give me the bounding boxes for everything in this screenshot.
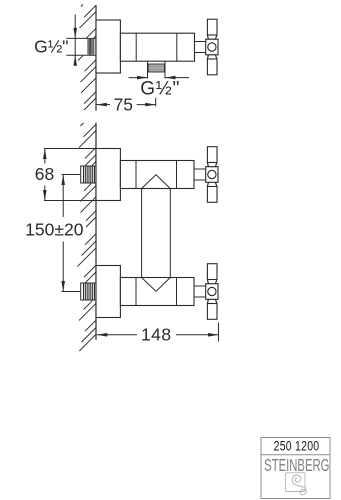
wall flange F1 [96,20,120,73]
svg-text:G½": G½" [140,78,180,99]
threaded inlet nipple N3 [81,283,96,300]
centerline extension (upper valve) [62,174,81,176]
extension lines for dimension 68 [44,149,121,201]
svg-text:148: 148 [141,325,172,345]
wall surface line (lower) [95,123,97,340]
label G1/2 inch (upper left) [34,36,68,56]
dimension 75 (wall to outlet axis) [96,94,156,114]
Steinberg es logo frame [286,473,306,492]
dimension 68 (flange height) [35,149,54,201]
label G1/2 inch (outlet) [140,78,180,99]
connecting column between valves [142,189,171,278]
handle lower grip H2 [207,187,217,203]
svg-text:68: 68 [35,164,54,184]
dimension line for port width [129,76,190,80]
valve body B1 [120,33,194,61]
handle lower grip H3 [207,304,217,320]
column top spigot chevron [142,175,171,189]
dimension line for G1/2 nipple diameter [73,15,77,66]
handle upper taper H1 [207,35,217,39]
valve neck H2 [195,169,206,180]
title block outer box [261,438,330,499]
handle upper grip H2 [207,147,217,163]
body section line B2 right [176,161,178,189]
dimension 150±20 (valve spacing) [24,175,86,292]
title block divider [261,454,330,456]
handle upper grip H1 [207,19,217,35]
handle lower taper H3 [207,299,217,303]
body section line [135,33,137,61]
outlet port P1 (threaded, to shower hose) [148,61,166,78]
valve body B3 (lower) [120,278,194,306]
extension line for dimension 148 [218,323,220,342]
cross handle boss circle H2 [208,170,216,178]
cross handle hub H2 [206,167,218,183]
handle lower taper H1 [207,55,217,59]
svg-text:150±20: 150±20 [25,220,84,240]
Steinberg es logo script [292,475,306,495]
cross handle boss circle H1 [208,43,216,51]
handle upper taper H2 [207,163,217,167]
wall surface line (upper) [95,5,97,111]
handle upper taper H3 [207,280,217,284]
cross handle hub H1 [206,39,218,55]
wall flange F3 (lower valve) [96,266,120,318]
handle lower grip H1 [207,59,217,75]
cross handle hub H3 [206,284,218,300]
wall section (upper, hatched) [78,5,96,111]
svg-text:75: 75 [114,94,133,114]
handle lower taper H2 [207,182,217,186]
valve neck H3 [195,286,206,297]
article number 250 1200 [274,438,320,454]
centerline extension (lower valve) [62,291,81,293]
body section line B3 left [135,278,137,306]
threaded inlet nipple N2 [81,166,96,183]
valve body B2 (upper) [120,161,194,189]
column bottom spigot chevron [142,278,171,292]
wall section (lower, hatched) [78,123,97,351]
body section line B2 left [135,161,137,189]
threaded inlet nipple N1 (G1/2 tail piece) [66,38,96,55]
bonnet section line [176,33,178,61]
handle upper grip H3 [207,264,217,280]
svg-text:G½": G½" [34,36,68,56]
cross handle boss circle H3 [208,287,216,295]
valve neck H1 [195,42,206,53]
svg-text:250 1200: 250 1200 [274,438,320,454]
body section line B3 right [176,278,178,306]
dimension 148 (wall to handle) [97,325,219,345]
wall flange F2 (upper valve) [96,149,120,201]
brand name STEINBERG [264,457,329,476]
